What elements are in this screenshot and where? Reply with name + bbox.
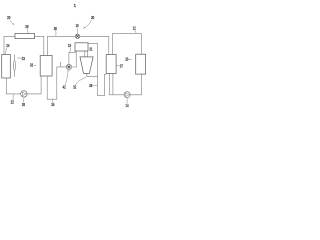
svg-text:22: 22 — [11, 100, 15, 105]
svg-text:33: 33 — [30, 63, 34, 68]
svg-text:38: 38 — [89, 83, 93, 88]
svg-text:32: 32 — [73, 85, 77, 90]
svg-text:26: 26 — [22, 102, 26, 107]
svg-text:28: 28 — [25, 24, 29, 29]
svg-text:10: 10 — [125, 57, 128, 62]
svg-text:19: 19 — [68, 43, 71, 48]
svg-text:20: 20 — [7, 15, 11, 20]
svg-text:16: 16 — [76, 23, 79, 28]
svg-text:31: 31 — [89, 47, 92, 52]
svg-text:42: 42 — [63, 85, 67, 90]
svg-text:36: 36 — [54, 26, 58, 31]
svg-text:34: 34 — [51, 102, 55, 107]
svg-text:30: 30 — [91, 15, 95, 20]
svg-text:12: 12 — [133, 25, 136, 30]
svg-text:23: 23 — [22, 56, 26, 61]
svg-text:24: 24 — [6, 43, 10, 48]
svg-text:37: 37 — [120, 63, 124, 68]
svg-text:14: 14 — [125, 103, 129, 108]
